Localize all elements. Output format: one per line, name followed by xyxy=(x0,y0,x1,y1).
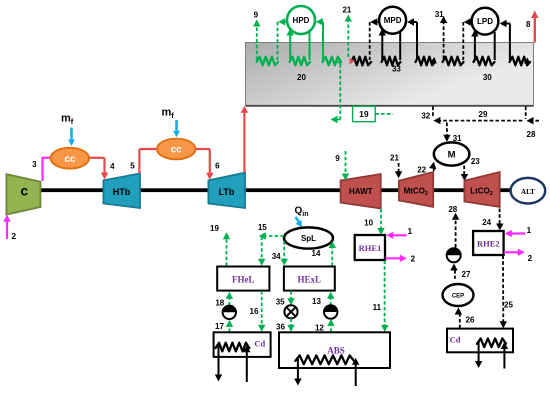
svg-text:28: 28 xyxy=(448,205,457,214)
svg-text:35: 35 xyxy=(276,297,285,306)
svg-text:ALT: ALT xyxy=(521,188,535,196)
svg-text:8: 8 xyxy=(526,20,531,29)
svg-text:1: 1 xyxy=(408,227,413,236)
svg-text:21: 21 xyxy=(342,6,351,15)
svg-text:MtCO2: MtCO2 xyxy=(404,187,428,198)
svg-text:HPD: HPD xyxy=(293,16,310,25)
svg-text:MPD: MPD xyxy=(384,16,402,25)
svg-text:HTb: HTb xyxy=(113,187,131,197)
svg-text:26: 26 xyxy=(466,315,475,324)
svg-text:12: 12 xyxy=(315,324,324,333)
svg-text:19: 19 xyxy=(359,109,369,119)
svg-text:FHeL: FHeL xyxy=(232,274,255,284)
svg-text:5: 5 xyxy=(130,161,135,170)
svg-text:14: 14 xyxy=(312,249,321,258)
svg-text:25: 25 xyxy=(504,300,513,309)
svg-text:mf: mf xyxy=(61,113,74,127)
svg-text:36: 36 xyxy=(276,322,285,331)
svg-text:HAWT: HAWT xyxy=(349,187,373,196)
svg-text:SpL: SpL xyxy=(301,234,316,243)
svg-text:CEP: CEP xyxy=(452,294,464,300)
svg-text:2: 2 xyxy=(11,231,16,241)
svg-text:29: 29 xyxy=(479,110,488,119)
svg-text:c: c xyxy=(20,184,28,199)
svg-text:21: 21 xyxy=(390,154,399,163)
svg-text:15: 15 xyxy=(258,223,267,232)
svg-text:M: M xyxy=(448,149,456,160)
svg-text:Qin: Qin xyxy=(295,206,309,219)
svg-text:2: 2 xyxy=(528,254,533,263)
svg-text:9: 9 xyxy=(254,11,259,20)
svg-text:LtCO2: LtCO2 xyxy=(470,187,493,198)
svg-text:RHE1: RHE1 xyxy=(359,243,382,253)
svg-text:cc: cc xyxy=(64,154,76,165)
svg-text:RHE2: RHE2 xyxy=(477,239,500,249)
svg-text:10: 10 xyxy=(364,218,373,227)
svg-text:HExL: HExL xyxy=(298,274,322,284)
svg-text:28: 28 xyxy=(527,130,536,139)
svg-text:LPD: LPD xyxy=(477,17,493,26)
svg-text:16: 16 xyxy=(250,307,259,316)
svg-text:18: 18 xyxy=(215,298,224,307)
svg-text:23: 23 xyxy=(471,157,480,166)
svg-text:20: 20 xyxy=(297,73,306,82)
svg-text:cc: cc xyxy=(171,145,183,156)
svg-text:4: 4 xyxy=(110,162,115,171)
svg-text:11: 11 xyxy=(373,303,382,312)
svg-text:9: 9 xyxy=(335,154,340,163)
svg-text:19: 19 xyxy=(210,224,219,233)
svg-text:33: 33 xyxy=(392,65,401,74)
svg-text:27: 27 xyxy=(462,270,471,279)
svg-text:13: 13 xyxy=(312,297,321,306)
svg-text:mf: mf xyxy=(162,107,175,121)
svg-text:31: 31 xyxy=(435,10,444,19)
svg-text:Cd: Cd xyxy=(254,339,265,349)
svg-text:32: 32 xyxy=(421,112,430,121)
svg-text:3: 3 xyxy=(32,160,37,169)
svg-text:22: 22 xyxy=(417,166,426,175)
svg-text:17: 17 xyxy=(215,322,224,331)
svg-text:ABS: ABS xyxy=(327,345,345,355)
svg-text:24: 24 xyxy=(482,218,491,227)
svg-text:1: 1 xyxy=(527,226,532,235)
svg-text:34: 34 xyxy=(272,252,281,261)
svg-text:LTb: LTb xyxy=(219,187,235,197)
svg-text:31: 31 xyxy=(453,134,462,143)
svg-text:2: 2 xyxy=(411,254,416,263)
svg-text:30: 30 xyxy=(483,73,492,82)
svg-text:Cd: Cd xyxy=(450,335,461,345)
svg-text:6: 6 xyxy=(215,161,220,170)
